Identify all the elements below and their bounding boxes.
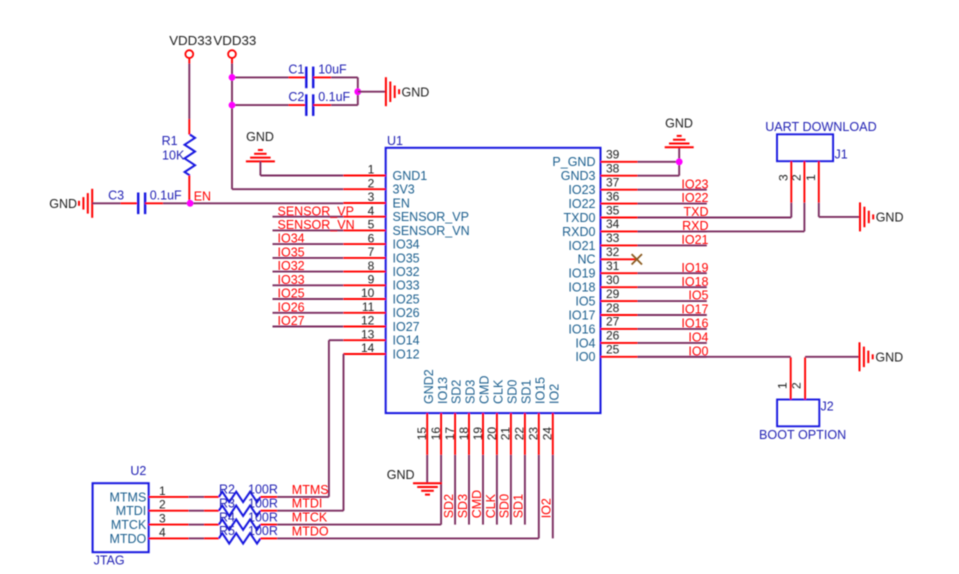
svg-text:7: 7: [368, 245, 375, 259]
svg-text:GND: GND: [876, 211, 904, 225]
svg-text:IO35: IO35: [278, 246, 305, 260]
svg-text:100R: 100R: [248, 497, 278, 511]
svg-text:R4: R4: [219, 510, 235, 524]
svg-text:IO0: IO0: [575, 350, 595, 364]
svg-text:IO23: IO23: [681, 177, 708, 191]
svg-text:2: 2: [368, 176, 375, 190]
svg-text:IO4: IO4: [575, 336, 595, 350]
svg-text:13: 13: [361, 327, 375, 341]
svg-text:IO32: IO32: [278, 259, 305, 273]
svg-text:IO2: IO2: [540, 498, 554, 518]
svg-text:12: 12: [361, 314, 375, 328]
svg-text:R1: R1: [162, 134, 178, 148]
svg-text:U1: U1: [387, 134, 403, 148]
svg-text:VDD33: VDD33: [169, 33, 212, 48]
svg-text:23: 23: [527, 427, 541, 441]
svg-text:MTDO: MTDO: [292, 524, 329, 538]
svg-text:CMD: CMD: [478, 376, 492, 404]
svg-text:10: 10: [361, 286, 375, 300]
svg-text:MTMS: MTMS: [292, 483, 329, 497]
svg-text:VDD33: VDD33: [213, 33, 256, 48]
svg-text:SENSOR_VN: SENSOR_VN: [393, 224, 470, 238]
svg-text:U2: U2: [130, 464, 146, 478]
svg-text:33: 33: [606, 231, 620, 245]
svg-text:18: 18: [457, 427, 471, 441]
svg-text:IO15: IO15: [533, 377, 547, 404]
svg-text:MTDI: MTDI: [292, 497, 323, 511]
svg-text:37: 37: [606, 176, 620, 190]
svg-text:J2: J2: [821, 400, 834, 414]
svg-text:GND: GND: [387, 468, 415, 482]
svg-text:EN: EN: [393, 196, 410, 210]
svg-text:15: 15: [415, 427, 429, 441]
svg-text:14: 14: [361, 341, 375, 355]
svg-text:SD1: SD1: [520, 380, 534, 404]
svg-text:UART DOWNLOAD: UART DOWNLOAD: [765, 120, 877, 134]
svg-text:IO34: IO34: [393, 238, 420, 252]
svg-text:IO35: IO35: [393, 251, 420, 265]
svg-text:SD3: SD3: [456, 494, 470, 518]
svg-text:MTDI: MTDI: [116, 504, 147, 518]
svg-text:1: 1: [159, 484, 166, 498]
svg-text:34: 34: [606, 217, 620, 231]
svg-text:IO17: IO17: [568, 308, 595, 322]
svg-text:SD1: SD1: [512, 494, 526, 518]
svg-text:CLK: CLK: [484, 493, 498, 518]
svg-text:IO34: IO34: [278, 232, 305, 246]
svg-text:25: 25: [606, 343, 620, 357]
svg-text:IO14: IO14: [393, 334, 420, 348]
svg-text:IO33: IO33: [393, 279, 420, 293]
svg-text:100R: 100R: [248, 510, 278, 524]
svg-text:22: 22: [513, 427, 527, 441]
svg-text:IO5: IO5: [575, 295, 595, 309]
svg-text:35: 35: [606, 203, 620, 217]
svg-text:R5: R5: [219, 524, 235, 538]
svg-text:2: 2: [790, 382, 804, 389]
svg-text:28: 28: [606, 301, 620, 315]
svg-text:21: 21: [499, 427, 513, 441]
svg-text:GND: GND: [49, 197, 77, 211]
svg-text:31: 31: [606, 259, 620, 273]
svg-text:20: 20: [485, 427, 499, 441]
svg-text:IO18: IO18: [681, 275, 708, 289]
svg-text:IO32: IO32: [393, 265, 420, 279]
svg-text:0.1uF: 0.1uF: [318, 90, 350, 104]
svg-text:IO25: IO25: [393, 292, 420, 306]
svg-text:29: 29: [606, 287, 620, 301]
svg-text:IO26: IO26: [278, 300, 305, 314]
svg-text:17: 17: [443, 427, 457, 441]
svg-text:C1: C1: [288, 62, 304, 76]
svg-text:11: 11: [362, 300, 375, 314]
svg-text:GND3: GND3: [561, 169, 596, 183]
svg-text:RXD0: RXD0: [562, 225, 595, 239]
svg-text:IO23: IO23: [568, 183, 595, 197]
svg-text:SD2: SD2: [442, 494, 456, 518]
svg-text:MTCK: MTCK: [111, 518, 147, 532]
svg-text:32: 32: [606, 245, 620, 259]
svg-text:CLK: CLK: [492, 379, 506, 404]
svg-text:3: 3: [159, 512, 166, 526]
svg-text:R3: R3: [219, 497, 235, 511]
svg-text:NC: NC: [577, 253, 595, 267]
svg-text:IO26: IO26: [393, 306, 420, 320]
svg-text:16: 16: [429, 427, 443, 441]
svg-text:26: 26: [606, 329, 620, 343]
svg-text:IO21: IO21: [568, 239, 595, 253]
svg-text:2: 2: [159, 498, 166, 512]
svg-text:IO19: IO19: [568, 267, 595, 281]
svg-text:SENSOR_VN: SENSOR_VN: [278, 218, 355, 232]
svg-text:IO13: IO13: [436, 377, 450, 404]
svg-text:IO33: IO33: [278, 273, 305, 287]
svg-text:GND: GND: [402, 85, 430, 99]
svg-text:1: 1: [368, 163, 375, 177]
svg-text:GND: GND: [665, 117, 693, 131]
svg-text:IO22: IO22: [681, 191, 708, 205]
svg-text:SD0: SD0: [498, 494, 512, 518]
svg-text:2: 2: [789, 174, 803, 181]
svg-text:38: 38: [606, 162, 620, 176]
svg-text:30: 30: [606, 273, 620, 287]
svg-text:10K: 10K: [162, 149, 185, 163]
svg-text:39: 39: [606, 148, 620, 162]
svg-text:GND: GND: [246, 130, 274, 144]
svg-text:IO5: IO5: [688, 289, 708, 303]
svg-text:8: 8: [368, 259, 375, 273]
svg-text:IO27: IO27: [278, 314, 305, 328]
svg-text:GND1: GND1: [393, 169, 428, 183]
svg-text:SD2: SD2: [450, 380, 464, 404]
svg-text:IO17: IO17: [681, 303, 708, 317]
svg-text:IO19: IO19: [681, 261, 708, 275]
svg-text:IO18: IO18: [568, 281, 595, 295]
svg-text:100R: 100R: [248, 524, 278, 538]
svg-text:0.1uF: 0.1uF: [150, 188, 182, 202]
svg-text:SD0: SD0: [506, 380, 520, 404]
svg-text:IO22: IO22: [568, 197, 595, 211]
svg-text:IO21: IO21: [681, 233, 708, 247]
svg-text:9: 9: [368, 273, 375, 287]
svg-text:P_GND: P_GND: [552, 155, 595, 169]
svg-text:R2: R2: [219, 483, 235, 497]
svg-text:C3: C3: [108, 188, 124, 202]
svg-text:IO16: IO16: [681, 317, 708, 331]
svg-text:C2: C2: [288, 90, 304, 104]
svg-text:MTDO: MTDO: [109, 532, 146, 546]
svg-text:3V3: 3V3: [393, 183, 415, 197]
svg-text:J1: J1: [835, 147, 848, 161]
svg-text:MTMS: MTMS: [109, 490, 146, 504]
svg-text:4: 4: [159, 525, 166, 539]
svg-text:27: 27: [606, 315, 620, 329]
svg-text:4: 4: [368, 204, 375, 218]
svg-text:3: 3: [368, 190, 375, 204]
svg-text:IO12: IO12: [393, 347, 420, 361]
svg-text:SENSOR_VP: SENSOR_VP: [278, 204, 354, 218]
svg-text:TXD0: TXD0: [564, 211, 596, 225]
svg-text:1: 1: [804, 174, 818, 181]
svg-text:5: 5: [368, 218, 375, 232]
svg-text:6: 6: [368, 231, 375, 245]
svg-text:GND2: GND2: [422, 369, 436, 404]
svg-text:IO25: IO25: [278, 287, 305, 301]
svg-text:1: 1: [775, 382, 789, 389]
svg-text:JTAG: JTAG: [94, 554, 125, 568]
svg-text:CMD: CMD: [470, 490, 484, 518]
svg-text:SENSOR_VP: SENSOR_VP: [393, 210, 469, 224]
svg-text:36: 36: [606, 189, 620, 203]
svg-text:10uF: 10uF: [318, 62, 347, 76]
svg-text:GND: GND: [875, 350, 903, 364]
svg-text:3: 3: [776, 174, 790, 181]
svg-text:MTCK: MTCK: [292, 511, 328, 525]
svg-text:IO4: IO4: [688, 331, 708, 345]
svg-text:100R: 100R: [248, 483, 278, 497]
svg-text:IO2: IO2: [547, 384, 561, 404]
svg-text:EN: EN: [194, 189, 211, 203]
svg-text:SD3: SD3: [464, 380, 478, 404]
svg-text:IO27: IO27: [393, 320, 420, 334]
svg-text:19: 19: [471, 427, 485, 441]
svg-text:24: 24: [541, 427, 555, 441]
svg-text:BOOT OPTION: BOOT OPTION: [759, 428, 846, 442]
svg-text:IO16: IO16: [568, 322, 595, 336]
